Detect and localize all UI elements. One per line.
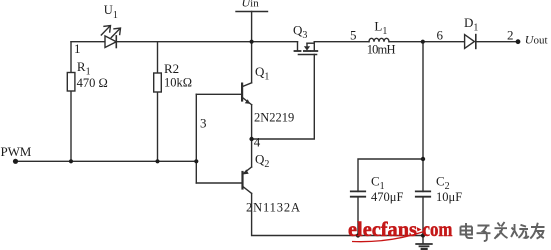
wire node 3 vertical (195, 94, 197, 183)
wire PWM horizontal (16, 160, 197, 162)
wire top rail D1 cathode to Uout terminal (476, 41, 518, 43)
svg-text:5: 5 (350, 27, 357, 42)
svg-text:Uin: Uin (242, 0, 260, 10)
svg-text:Q1: Q1 (255, 64, 269, 83)
wire top rail L1 to D1 anode (389, 41, 465, 43)
wire R2 branch vertical (157, 42, 159, 162)
svg-text:Q3: Q3 (293, 23, 307, 42)
LED U1 diode triangle and cathode bar (105, 36, 116, 48)
ground symbol (416, 244, 432, 249)
wire C1 bottom lead (357, 197, 359, 236)
wire top rail Q3 drain to L1 (314, 41, 369, 43)
node 1 left vertical wire (70, 42, 72, 162)
wire Q1 emitter to Q2 emitter vertical (251, 105, 253, 167)
wire Q1 collector vertical (251, 42, 253, 83)
svg-text:D1: D1 (464, 15, 478, 34)
junction dot ground rail / C2 (421, 233, 425, 237)
LED U1 emission arrow 1 (101, 26, 110, 36)
wire Uin vertical down to top rail (251, 12, 253, 42)
svg-text:Q2: Q2 (255, 152, 269, 171)
capacitor C1 plates (351, 191, 365, 196)
junction dot R1 / PWM line (69, 159, 73, 163)
transistor Q1 body (242, 83, 252, 105)
watermark elecfans.com (348, 217, 453, 241)
wire node 4 horizontal to Q3 gate lead (252, 55, 315, 140)
junction dot C1 bottom (356, 233, 360, 237)
wire Q1 base lead (196, 93, 242, 95)
svg-text:470 Ω: 470 Ω (77, 76, 108, 90)
wire top rail from LED cathode to Q3 source (116, 41, 297, 43)
svg-text:PWM: PWM (1, 144, 32, 159)
svg-text:com: com (423, 217, 453, 241)
LED U1 emission arrow 2 (111, 28, 120, 38)
terminal dot PWM (13, 159, 18, 164)
junction dot node 4 (249, 137, 253, 141)
svg-text:6: 6 (437, 28, 444, 43)
junction dot node 6 (421, 40, 425, 44)
junction dot C1 branch (421, 157, 425, 161)
wire Q2 collector down to ground rail (252, 193, 423, 235)
svg-text:U1: U1 (104, 3, 118, 21)
svg-text:Uout: Uout (525, 33, 548, 47)
resistor R1 body (67, 73, 75, 92)
wire node 6 vertical down to C2 (422, 42, 424, 192)
svg-text:2N1132A: 2N1132A (246, 201, 300, 215)
capacitor C2 plates (416, 191, 430, 196)
svg-text:1: 1 (74, 41, 81, 56)
watermark Chinese characters (461, 222, 545, 241)
wire C2 bottom lead to ground (422, 197, 424, 243)
watermark swoosh (352, 232, 424, 242)
svg-text:2N2219: 2N2219 (254, 110, 294, 124)
svg-text:10mH: 10mH (367, 43, 396, 57)
wire top rail from node 1 corner to LED anode (71, 41, 105, 43)
inductor L1 coil (369, 38, 389, 41)
svg-text:R1: R1 (77, 59, 91, 78)
diode D1 triangle and cathode bar (465, 35, 476, 49)
junction dot R2 / PWM line (155, 159, 159, 163)
svg-text:elecfans: elecfans (348, 217, 417, 241)
svg-text:10μF: 10μF (436, 190, 462, 204)
mosfet Q3 body (295, 42, 318, 55)
watermark swirl separator (417, 227, 422, 232)
transistor Q2 body (243, 167, 252, 193)
wire Q2 base lead (196, 182, 242, 184)
svg-text:R2: R2 (164, 61, 179, 76)
resistor R2 body (154, 73, 162, 92)
Uin terminal bar (236, 11, 268, 13)
wire C1 branch horizontal (358, 159, 423, 191)
svg-text:470μF: 470μF (371, 190, 403, 204)
svg-text:4: 4 (254, 135, 261, 150)
svg-text:10kΩ: 10kΩ (164, 76, 192, 90)
terminal dot Uout node 2 (516, 39, 521, 44)
svg-text:3: 3 (200, 115, 207, 130)
junction dot at Uin / top rail (250, 40, 254, 44)
junction dot node 3 / PWM line (194, 159, 198, 163)
svg-text:L1: L1 (374, 18, 387, 37)
svg-text:2: 2 (507, 27, 514, 42)
